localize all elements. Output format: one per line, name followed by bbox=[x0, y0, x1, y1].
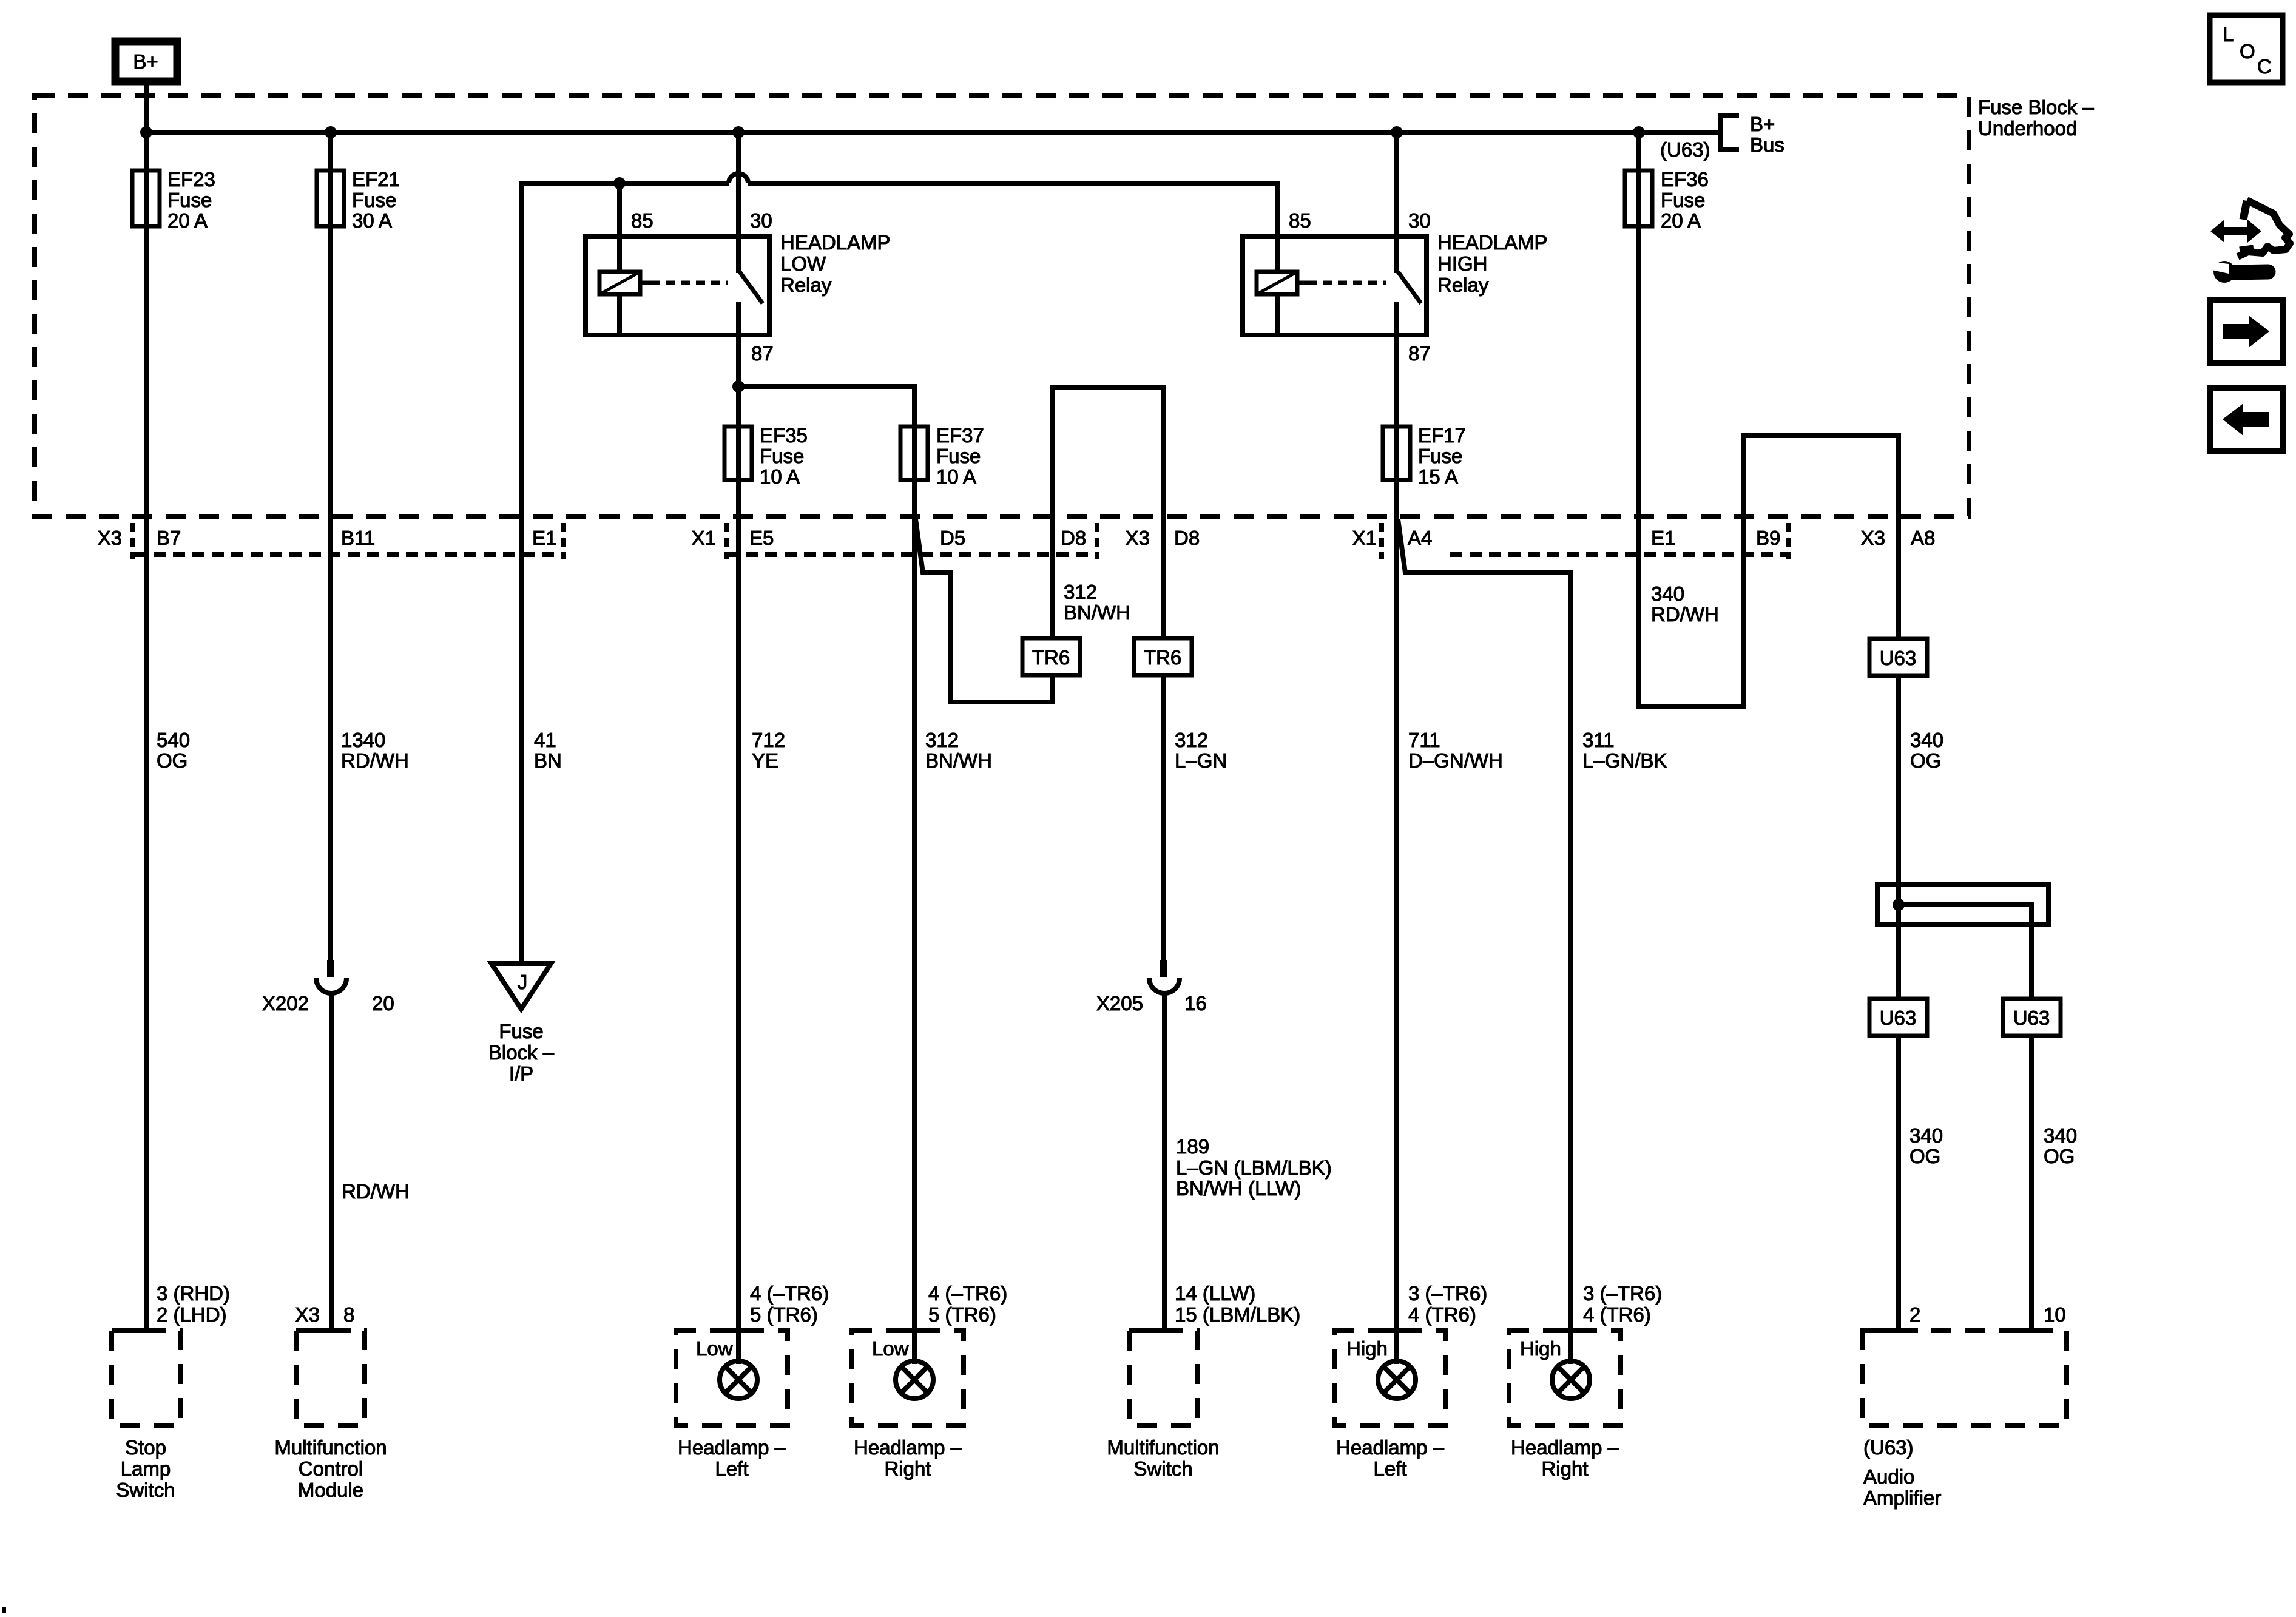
svg-text:Block –: Block – bbox=[488, 1041, 555, 1064]
svg-text:L–GN: L–GN bbox=[1175, 749, 1227, 772]
wire 41 BN to fuse block IP bbox=[521, 516, 562, 964]
svg-text:Lamp: Lamp bbox=[121, 1457, 171, 1480]
connector separator X1|E5 bbox=[724, 523, 729, 559]
svg-text:U63: U63 bbox=[1880, 647, 1917, 669]
pin label X1 (headlamp low) bbox=[692, 527, 716, 549]
svg-text:Fuse: Fuse bbox=[760, 445, 804, 467]
svg-text:312: 312 bbox=[1064, 581, 1097, 603]
wire RD/WH splice to control module bbox=[295, 992, 410, 1331]
svg-text:E1: E1 bbox=[532, 527, 556, 549]
option label TR6 (X3 D8) bbox=[1134, 638, 1192, 675]
svg-text:X205: X205 bbox=[1096, 992, 1143, 1014]
ground style symbol J fuse block IP bbox=[488, 964, 555, 1085]
wire branch to EF37 bbox=[738, 387, 914, 427]
option label U63 (A8 wire) bbox=[1869, 639, 1927, 676]
svg-text:B9: B9 bbox=[1756, 527, 1780, 549]
svg-text:O: O bbox=[2240, 40, 2255, 62]
wire 340 OG to amplifier pin 2 bbox=[1899, 924, 1943, 1331]
svg-text:Underhood: Underhood bbox=[1978, 117, 2077, 140]
component Multifunction Control Module bbox=[274, 1331, 387, 1501]
svg-text:J: J bbox=[518, 971, 528, 993]
svg-text:D–GN/WH: D–GN/WH bbox=[1408, 749, 1503, 772]
svg-text:I/P: I/P bbox=[509, 1062, 533, 1085]
svg-text:Switch: Switch bbox=[116, 1479, 175, 1501]
svg-text:Fuse Block –: Fuse Block – bbox=[1978, 96, 2094, 118]
svg-text:L: L bbox=[2223, 23, 2234, 46]
svg-text:Headlamp –: Headlamp – bbox=[1511, 1436, 1619, 1459]
node bus/low relay 30 bbox=[732, 126, 745, 138]
svg-text:20: 20 bbox=[372, 992, 394, 1014]
svg-text:OG: OG bbox=[1909, 1145, 1940, 1167]
wire hop over low relay 30 wire bbox=[729, 174, 748, 183]
svg-text:LOW: LOW bbox=[780, 252, 826, 275]
wire 311 L-GN/BK branch headlamp high right bbox=[1398, 519, 1667, 1331]
option label U63 (amp pin 2) bbox=[1869, 999, 1927, 1036]
pin E1 (audio feed) bbox=[1651, 527, 1675, 549]
node coil feed / low relay 85 bbox=[613, 177, 626, 189]
svg-text:Headlamp –: Headlamp – bbox=[1336, 1436, 1445, 1459]
svg-text:U63: U63 bbox=[1880, 1007, 1917, 1029]
relay K2 HEADLAMP HIGH bbox=[1243, 132, 1548, 365]
svg-text:EF23: EF23 bbox=[167, 168, 215, 191]
svg-text:Relay: Relay bbox=[1437, 274, 1489, 296]
svg-text:X3: X3 bbox=[98, 527, 122, 549]
svg-text:85: 85 bbox=[1289, 209, 1311, 232]
pin A8 bbox=[1911, 527, 1935, 549]
svg-text:189: 189 bbox=[1176, 1135, 1209, 1158]
svg-text:X3: X3 bbox=[295, 1303, 320, 1326]
svg-text:10 A: 10 A bbox=[936, 465, 976, 488]
svg-text:Right: Right bbox=[1541, 1457, 1588, 1480]
component Audio Amplifier U63 bbox=[1863, 1331, 2067, 1509]
svg-text:A8: A8 bbox=[1911, 527, 1935, 549]
node 87 branch bbox=[732, 380, 745, 393]
svg-text:EF17: EF17 bbox=[1418, 424, 1466, 447]
connector separator X1|A4 bbox=[1379, 523, 1384, 559]
svg-text:Fuse: Fuse bbox=[499, 1020, 543, 1042]
svg-text:RD/WH: RD/WH bbox=[342, 1180, 410, 1203]
svg-text:312: 312 bbox=[1175, 729, 1208, 751]
svg-text:2: 2 bbox=[1909, 1303, 1920, 1326]
pin label X1 (headlamp high) bbox=[1352, 527, 1377, 549]
fuse EF35 bbox=[724, 424, 808, 488]
svg-text:D8: D8 bbox=[1174, 527, 1200, 549]
svg-text:Headlamp –: Headlamp – bbox=[854, 1436, 962, 1459]
pin label X3 (mux switch) bbox=[1126, 527, 1150, 549]
svg-text:8: 8 bbox=[343, 1303, 354, 1326]
svg-text:OG: OG bbox=[2044, 1145, 2075, 1167]
connector separator E1 bbox=[561, 523, 566, 559]
svg-text:311: 311 bbox=[1582, 729, 1615, 751]
wire 340 RD/WH jumper E1 to B9 bbox=[1639, 516, 1744, 706]
svg-text:(U63): (U63) bbox=[1660, 138, 1710, 161]
svg-text:30: 30 bbox=[750, 209, 772, 232]
svg-text:14 (LLW): 14 (LLW) bbox=[1175, 1282, 1255, 1305]
svg-text:X202: X202 bbox=[262, 992, 309, 1014]
svg-text:BN/WH: BN/WH bbox=[925, 749, 992, 772]
svg-text:Module: Module bbox=[298, 1479, 363, 1501]
splice X205 bbox=[1096, 960, 1207, 1014]
svg-text:340: 340 bbox=[1910, 729, 1943, 751]
svg-text:High: High bbox=[1520, 1337, 1561, 1360]
B+ bus bar wire bbox=[146, 130, 1720, 135]
svg-text:Fuse: Fuse bbox=[167, 189, 212, 211]
connector separator X3|B7 bbox=[130, 523, 135, 559]
label Fuse Block Underhood bbox=[1978, 96, 2094, 140]
pin A4 bbox=[1408, 527, 1432, 549]
connector row second dashed line segment mid bbox=[726, 552, 1097, 557]
wire 189 to multifunction switch bbox=[1164, 992, 1332, 1331]
svg-text:X3: X3 bbox=[1861, 527, 1885, 549]
svg-text:TR6: TR6 bbox=[1032, 646, 1070, 669]
svg-text:BN/WH (LLW): BN/WH (LLW) bbox=[1176, 1177, 1302, 1200]
pin B11 bbox=[341, 527, 375, 549]
pin B9 bbox=[1756, 527, 1780, 549]
pin D8 (X3) bbox=[1174, 527, 1200, 549]
svg-text:B11: B11 bbox=[341, 527, 375, 549]
svg-text:340: 340 bbox=[2044, 1124, 2077, 1147]
pin label X3 (audio) bbox=[1861, 527, 1885, 549]
svg-text:Right: Right bbox=[884, 1457, 931, 1480]
svg-text:HEADLAMP: HEADLAMP bbox=[1437, 231, 1548, 254]
svg-text:5 (TR6): 5 (TR6) bbox=[750, 1303, 818, 1326]
node bus/EF36 bbox=[1633, 126, 1645, 138]
svg-text:Relay: Relay bbox=[780, 274, 832, 296]
svg-text:711: 711 bbox=[1408, 729, 1440, 751]
svg-text:EF37: EF37 bbox=[936, 424, 984, 447]
svg-text:312: 312 bbox=[925, 729, 959, 751]
svg-text:15 A: 15 A bbox=[1418, 465, 1458, 488]
B+ Bus terminal bracket bbox=[1721, 113, 1784, 156]
wire low relay 87 to fuses bbox=[736, 335, 741, 516]
svg-text:OG: OG bbox=[157, 749, 187, 772]
label (U63) option note bbox=[1660, 138, 1710, 161]
pin label X3 (stop lamp feed) bbox=[98, 527, 122, 549]
svg-text:(U63): (U63) bbox=[1863, 1436, 1914, 1459]
wire fuse block jumper B9 to A8 bbox=[1744, 436, 1899, 516]
option label TR6 (X1 D8) bbox=[1022, 638, 1080, 675]
svg-text:B7: B7 bbox=[157, 527, 181, 549]
svg-text:High: High bbox=[1346, 1337, 1388, 1360]
wire 712 YE headlamp low left bbox=[738, 516, 829, 1331]
svg-text:TR6: TR6 bbox=[1144, 646, 1181, 669]
svg-text:712: 712 bbox=[752, 729, 785, 751]
svg-text:EF21: EF21 bbox=[352, 168, 400, 191]
fuse EF17 bbox=[1383, 424, 1466, 488]
pin E5 bbox=[749, 527, 774, 549]
svg-text:RD/WH: RD/WH bbox=[341, 749, 409, 772]
svg-text:D8: D8 bbox=[1061, 527, 1086, 549]
battery feed symbol B+ bbox=[115, 41, 177, 81]
component Headlamp Left (low beam) bbox=[676, 1331, 788, 1480]
svg-text:4 (TR6): 4 (TR6) bbox=[1408, 1303, 1476, 1326]
svg-text:3 (RHD): 3 (RHD) bbox=[157, 1282, 230, 1305]
svg-text:Low: Low bbox=[696, 1337, 733, 1360]
svg-text:U63: U63 bbox=[2013, 1007, 2050, 1029]
svg-text:OG: OG bbox=[1910, 749, 1941, 772]
svg-text:30: 30 bbox=[1408, 209, 1431, 232]
svg-text:Fuse: Fuse bbox=[1418, 445, 1462, 467]
wire fuse block jumper D8 to D8 bbox=[1052, 387, 1163, 516]
connector row second dashed line segment right bbox=[1450, 552, 1788, 557]
component Headlamp Right (low beam) bbox=[852, 1331, 964, 1480]
pin D5 bbox=[940, 527, 965, 549]
wire 312 BN/WH headlamp low right bbox=[914, 516, 1007, 1331]
svg-text:E5: E5 bbox=[749, 527, 774, 549]
wire 312 BN/WH branch D5 to TR6 to D8 bbox=[916, 516, 1130, 702]
node bus/EF21 bbox=[325, 126, 337, 138]
svg-text:B+: B+ bbox=[133, 50, 158, 73]
svg-text:Low: Low bbox=[872, 1337, 909, 1360]
splice pack 340 OG bbox=[1877, 885, 2048, 924]
icon LOC box bbox=[2210, 15, 2283, 83]
svg-text:4 (–TR6): 4 (–TR6) bbox=[750, 1282, 829, 1305]
svg-text:Bus: Bus bbox=[1750, 133, 1784, 156]
connector separator D8|X3 bbox=[1095, 523, 1099, 559]
svg-text:10 A: 10 A bbox=[760, 465, 800, 488]
connector separator B9 bbox=[1786, 523, 1791, 559]
node bus/high relay 30 bbox=[1391, 126, 1403, 138]
svg-text:X1: X1 bbox=[692, 527, 716, 549]
svg-text:41: 41 bbox=[534, 729, 556, 751]
fuse EF23 bbox=[132, 132, 215, 516]
pin B7 bbox=[157, 527, 181, 549]
wire relay coil feed from E1 riser bbox=[521, 183, 1277, 516]
option label U63 (amp pin 10) bbox=[2003, 999, 2061, 1036]
fuse block underhood dashed boundary bbox=[35, 96, 1969, 516]
svg-text:EF35: EF35 bbox=[760, 424, 808, 447]
svg-text:RD/WH: RD/WH bbox=[1651, 603, 1719, 626]
component Multifunction Switch bbox=[1107, 1331, 1219, 1480]
component Headlamp Right (high beam) bbox=[1509, 1331, 1621, 1480]
fuse EF21 bbox=[317, 132, 400, 516]
relay K1 HEADLAMP LOW bbox=[586, 132, 891, 365]
svg-text:E1: E1 bbox=[1651, 527, 1675, 549]
page footer period mark bbox=[2, 1607, 6, 1613]
svg-text:C: C bbox=[2257, 55, 2272, 78]
svg-text:3 (–TR6): 3 (–TR6) bbox=[1583, 1282, 1662, 1305]
svg-text:340: 340 bbox=[1909, 1124, 1943, 1147]
wire high relay 87 to EF17 bbox=[1394, 335, 1399, 516]
svg-text:Headlamp –: Headlamp – bbox=[678, 1436, 786, 1459]
wire 1340 RD/WH to splice X202 bbox=[331, 516, 409, 960]
pin D8 (X1) bbox=[1061, 527, 1086, 549]
svg-text:EF36: EF36 bbox=[1661, 168, 1709, 191]
wire 540 OG stop lamp switch bbox=[146, 516, 230, 1331]
svg-text:Stop: Stop bbox=[125, 1436, 166, 1459]
svg-text:5 (TR6): 5 (TR6) bbox=[928, 1303, 996, 1326]
icon vehicle outline with wrench bbox=[2209, 200, 2290, 283]
svg-text:Amplifier: Amplifier bbox=[1863, 1487, 1941, 1509]
svg-text:L–GN (LBM/LBK): L–GN (LBM/LBK) bbox=[1176, 1156, 1332, 1179]
svg-text:Audio: Audio bbox=[1863, 1465, 1914, 1488]
svg-text:Fuse: Fuse bbox=[1661, 189, 1705, 211]
svg-text:BN/WH: BN/WH bbox=[1064, 601, 1130, 624]
svg-text:YE: YE bbox=[752, 749, 778, 772]
wire B+ feed to bus bbox=[144, 85, 149, 132]
svg-text:Fuse: Fuse bbox=[352, 189, 396, 211]
fuse EF36 bbox=[1625, 132, 1709, 516]
svg-text:HEADLAMP: HEADLAMP bbox=[780, 231, 891, 254]
svg-text:340: 340 bbox=[1651, 582, 1684, 605]
svg-text:BN: BN bbox=[534, 749, 562, 772]
node bus/EF23 bbox=[140, 126, 152, 138]
svg-text:20 A: 20 A bbox=[167, 209, 208, 232]
component Headlamp Left (high beam) bbox=[1334, 1331, 1446, 1480]
wire 340 OG to amplifier pin 10 bbox=[2031, 924, 2077, 1331]
svg-text:B+: B+ bbox=[1750, 113, 1775, 135]
connector row second dashed line segment left bbox=[134, 552, 563, 557]
svg-text:30 A: 30 A bbox=[352, 209, 392, 232]
component Stop Lamp Switch bbox=[112, 1331, 180, 1501]
svg-text:HIGH: HIGH bbox=[1437, 252, 1488, 275]
svg-text:X3: X3 bbox=[1126, 527, 1150, 549]
svg-text:15 (LBM/LBK): 15 (LBM/LBK) bbox=[1175, 1303, 1300, 1326]
svg-text:A4: A4 bbox=[1408, 527, 1432, 549]
svg-text:1340: 1340 bbox=[341, 729, 385, 751]
svg-text:Switch: Switch bbox=[1133, 1457, 1192, 1480]
svg-text:85: 85 bbox=[631, 209, 653, 232]
svg-text:540: 540 bbox=[157, 729, 190, 751]
svg-text:D5: D5 bbox=[940, 527, 965, 549]
svg-text:16: 16 bbox=[1184, 992, 1207, 1014]
icon arrow back box bbox=[2210, 388, 2283, 451]
svg-text:X1: X1 bbox=[1352, 527, 1377, 549]
svg-text:Fuse: Fuse bbox=[936, 445, 981, 467]
svg-text:4 (–TR6): 4 (–TR6) bbox=[928, 1282, 1007, 1305]
svg-text:Left: Left bbox=[1373, 1457, 1406, 1480]
pin E1 bbox=[532, 527, 556, 549]
svg-text:Control: Control bbox=[299, 1457, 363, 1480]
svg-text:3 (–TR6): 3 (–TR6) bbox=[1408, 1282, 1487, 1305]
svg-text:Multifunction: Multifunction bbox=[1107, 1436, 1219, 1459]
icon arrow next box bbox=[2210, 300, 2283, 363]
wire 340 OG from A8 bbox=[1899, 516, 1943, 885]
fuse EF37 bbox=[900, 424, 984, 516]
svg-text:4 (TR6): 4 (TR6) bbox=[1583, 1303, 1651, 1326]
wire 312 L-GN from D8 X3 bbox=[1163, 516, 1227, 960]
svg-text:10: 10 bbox=[2044, 1303, 2066, 1326]
svg-text:87: 87 bbox=[1408, 342, 1431, 365]
svg-text:87: 87 bbox=[751, 342, 774, 365]
svg-text:2 (LHD): 2 (LHD) bbox=[157, 1303, 227, 1326]
svg-text:Left: Left bbox=[715, 1457, 748, 1480]
svg-text:L–GN/BK: L–GN/BK bbox=[1582, 749, 1667, 772]
svg-text:Multifunction: Multifunction bbox=[274, 1436, 387, 1459]
splice X202 bbox=[262, 960, 394, 1014]
svg-text:20 A: 20 A bbox=[1661, 209, 1701, 232]
wire 711 D-GN/WH headlamp high left bbox=[1397, 516, 1503, 1331]
